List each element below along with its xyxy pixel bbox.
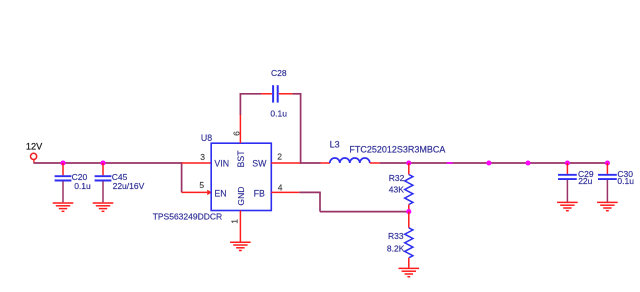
pin 4 FB stub (271, 191, 299, 193)
ground under C45 (93, 203, 114, 211)
capacitor C20 (55, 163, 72, 202)
ground under C29 (557, 202, 578, 210)
port 12V (30, 153, 36, 163)
wire FB drop (319, 192, 321, 211)
wire BST loop top right (292, 93, 301, 95)
svg-text:SW: SW (252, 158, 267, 168)
svg-text:12V: 12V (26, 141, 43, 151)
junction at divider tap (406, 209, 411, 214)
wire output rail (380, 162, 608, 164)
svg-text:C28: C28 (271, 68, 287, 78)
pin 5 EN stub with input arrow (182, 190, 212, 195)
resistor R33 (405, 212, 413, 268)
svg-text:VIN: VIN (214, 158, 229, 168)
svg-text:0.1u: 0.1u (270, 109, 287, 119)
ground under R33 (399, 268, 420, 276)
pin 1 GND stub (239, 211, 241, 242)
svg-text:U8: U8 (201, 133, 212, 143)
svg-text:5: 5 (199, 180, 204, 190)
pin 2 SW stub (271, 162, 300, 164)
svg-text:0.1u: 0.1u (74, 181, 91, 191)
svg-text:R33: R33 (388, 231, 404, 241)
junction on rail 1 (486, 160, 491, 165)
junction on rail 2 (525, 160, 530, 165)
svg-text:EN: EN (214, 189, 226, 199)
svg-text:BST: BST (236, 150, 246, 168)
wire VIN to EN drop (181, 162, 183, 192)
junction at C29 (565, 160, 570, 165)
IC U8 TPS563249DDCR body (211, 143, 271, 210)
svg-text:R32: R32 (389, 173, 405, 183)
svg-text:FB: FB (254, 189, 265, 199)
capacitor C45 (95, 163, 112, 202)
svg-text:L3: L3 (330, 139, 340, 149)
wire SW to inductor (300, 162, 321, 164)
wire BST loop right leg down to SW (300, 93, 302, 163)
svg-text:0.1u: 0.1u (617, 176, 634, 186)
capacitor C29 (558, 163, 577, 202)
svg-text:3: 3 (200, 152, 205, 162)
svg-text:43K: 43K (389, 184, 404, 194)
svg-text:GND: GND (236, 186, 246, 205)
resistor R32 (405, 163, 413, 212)
ground under C20 (53, 203, 74, 211)
svg-text:FTC252012S3R3MBCA: FTC252012S3R3MBCA (349, 144, 445, 154)
wire BST loop left leg (239, 93, 241, 115)
inductor L3 (321, 158, 380, 163)
svg-text:1: 1 (230, 219, 240, 224)
svg-text:2: 2 (277, 152, 282, 162)
capacitor C28 (261, 85, 292, 102)
svg-text:22u/16V: 22u/16V (113, 181, 145, 191)
svg-text:22u: 22u (578, 176, 592, 186)
pin 3 VIN stub (182, 162, 212, 164)
junction at R32 tap (406, 160, 411, 165)
wire 12V rail (34, 162, 183, 164)
svg-text:4: 4 (278, 183, 283, 193)
junction at C20 (60, 160, 65, 165)
wire short magenta segment on rail (447, 162, 453, 164)
wire FB horizontal (299, 191, 321, 193)
svg-text:TPS563249DDCR: TPS563249DDCR (153, 211, 222, 221)
pin 6 BST stub (239, 115, 241, 144)
capacitor C30 (598, 163, 617, 202)
ground under U8 (230, 242, 251, 250)
junction at C30 (605, 160, 610, 165)
wire FB to divider tap (320, 211, 409, 213)
ground under C30 (597, 202, 618, 210)
svg-text:8.2K: 8.2K (387, 243, 405, 253)
wire BST loop top left (240, 93, 261, 95)
junction at C45 (100, 160, 105, 165)
